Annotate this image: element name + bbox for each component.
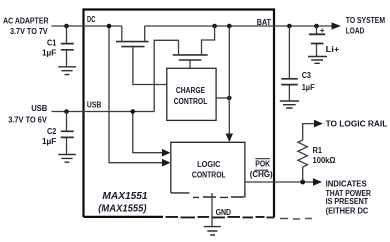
arrow POK indicates: [313, 178, 322, 186]
label device name MAX1551: [98, 190, 147, 215]
svg-text:USB: USB: [31, 104, 47, 113]
svg-text:LOGIC: LOGIC: [197, 160, 220, 169]
label AC adapter input: [3, 16, 49, 36]
IC package outline MAX1551: [84, 10, 313, 220]
resistor R1: [298, 124, 336, 182]
svg-text:1µF: 1µF: [42, 137, 56, 146]
svg-text:AC ADAPTER: AC ADAPTER: [3, 16, 49, 25]
svg-text:Li+: Li+: [326, 45, 340, 54]
svg-text:(CHG): (CHG): [250, 170, 273, 179]
svg-text:(EITHER DC: (EITHER DC: [326, 207, 369, 216]
node charge control junction: [227, 96, 232, 101]
ground for battery: [308, 57, 327, 64]
wire BAT rail: [145, 25, 333, 27]
wire DC sense into logic control: [109, 26, 164, 163]
transistor Q1 DC pass FET: [116, 26, 167, 85]
capacitor C2: [42, 112, 74, 155]
svg-text:C2: C2: [47, 127, 57, 136]
arrow into logic control top: [226, 134, 233, 143]
wire USB input to Q2 source: [52, 111, 155, 113]
svg-text:CONTROL: CONTROL: [192, 171, 226, 180]
svg-text:IS PRESENT: IS PRESENT: [326, 197, 369, 206]
charge control block: [167, 68, 216, 120]
arrow USB sense: [162, 149, 171, 157]
label indicates note: [326, 180, 372, 216]
svg-text:C3: C3: [302, 71, 312, 80]
node C1 tap: [64, 24, 69, 29]
node DC sense tap: [107, 24, 112, 29]
node Q2 drain tap: [212, 24, 217, 29]
pin label POK with overline: [255, 159, 270, 169]
svg-text:R1: R1: [313, 146, 323, 155]
ground for C2: [58, 155, 76, 163]
label to system load: [346, 16, 385, 36]
pin GND lead: [211, 193, 213, 226]
node POK junction: [300, 180, 305, 185]
svg-text:TO SYSTEM: TO SYSTEM: [346, 16, 385, 25]
svg-text:TO LOGIC RAIL: TO LOGIC RAIL: [326, 120, 388, 129]
wire USB sense into logic control: [133, 112, 164, 153]
wire charge control to BAT sense line: [216, 97, 229, 99]
svg-text:INDICATES: INDICATES: [326, 180, 368, 189]
svg-text:100kΩ: 100kΩ: [313, 156, 337, 165]
capacitor C3: [281, 26, 314, 101]
ground for C3: [280, 101, 299, 108]
svg-text:C1: C1: [47, 38, 57, 47]
label USB input: [8, 104, 47, 124]
svg-text:GND: GND: [216, 208, 232, 217]
svg-text:+: +: [320, 26, 325, 35]
node battery tap: [314, 24, 319, 29]
logic control block: [171, 142, 245, 197]
battery Li+ cell: [309, 26, 340, 56]
arrow to system load: [332, 22, 342, 29]
svg-text:1µF: 1µF: [302, 83, 315, 92]
svg-text:(MAX1555): (MAX1555): [98, 202, 147, 214]
wire BAT sense into logic control: [228, 26, 230, 136]
node BAT sense tap: [227, 24, 232, 29]
svg-text:3.7V TO 6V: 3.7V TO 6V: [8, 115, 47, 124]
svg-text:MAX1551: MAX1551: [102, 190, 147, 202]
svg-text:USB: USB: [87, 100, 102, 109]
svg-text:LOAD: LOAD: [346, 27, 365, 36]
node C3 tap: [287, 24, 292, 29]
ground for GND pin: [204, 227, 221, 235]
svg-text:DC: DC: [87, 15, 96, 24]
node USB sense tap: [131, 109, 136, 114]
svg-text:CHARGE: CHARGE: [176, 86, 206, 95]
svg-text:CONTROL: CONTROL: [174, 97, 208, 106]
ground for C1: [58, 67, 76, 75]
svg-text:POK: POK: [255, 159, 270, 168]
arrow to logic rail: [314, 120, 323, 128]
svg-text:3.7V TO 7V: 3.7V TO 7V: [10, 27, 48, 36]
svg-text:BAT: BAT: [257, 18, 271, 27]
arrow DC sense: [162, 159, 171, 167]
capacitor C1: [42, 26, 74, 66]
transistor Q2 USB pass FET: [154, 26, 214, 112]
wire POK output: [245, 181, 314, 183]
node C2 tap: [64, 109, 69, 114]
svg-text:1µF: 1µF: [42, 48, 56, 57]
pin label CHG with overline: [250, 170, 273, 179]
wire AC adapter to DC pin: [52, 25, 122, 27]
